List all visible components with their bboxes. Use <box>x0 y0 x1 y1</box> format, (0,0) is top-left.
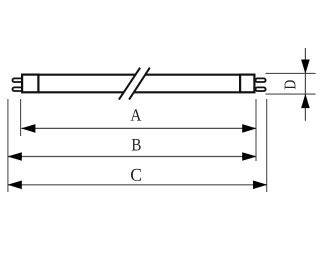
arrow D top <box>301 60 310 74</box>
right pin upper <box>256 78 266 82</box>
label B <box>132 139 141 151</box>
extension line D bottom <box>265 93 315 95</box>
right pin lower <box>256 87 266 91</box>
tube top line right segment <box>146 74 241 76</box>
tube bottom line right segment <box>134 91 241 93</box>
break line right <box>129 68 150 100</box>
arrow B right <box>242 152 256 161</box>
extension line left outer (B,C) <box>7 99 9 192</box>
right cap <box>240 75 254 93</box>
extension line right outer (C) <box>266 99 268 192</box>
arrow C right <box>253 181 267 190</box>
arrow D bottom <box>301 94 310 108</box>
left pin lower <box>13 87 24 91</box>
arrow A left <box>21 124 35 133</box>
tube bottom line left segment <box>38 91 124 93</box>
tube top line left segment <box>38 74 135 76</box>
arrow B left <box>8 152 22 161</box>
left pin upper <box>13 78 24 82</box>
dimension line D vertical <box>304 48 306 121</box>
arrow C left <box>8 181 22 190</box>
extension line D top <box>265 72 315 74</box>
left cap <box>22 75 38 93</box>
dimension line A <box>22 127 257 129</box>
extension line left inner (A) <box>20 99 22 136</box>
label A <box>131 109 142 120</box>
label C <box>131 169 141 181</box>
extension line right inner (A,B) <box>255 99 257 161</box>
arrow A right <box>242 124 256 133</box>
break line left <box>119 68 140 100</box>
dimension line C <box>8 184 267 186</box>
label D <box>285 80 296 89</box>
dimension line B <box>8 156 256 158</box>
